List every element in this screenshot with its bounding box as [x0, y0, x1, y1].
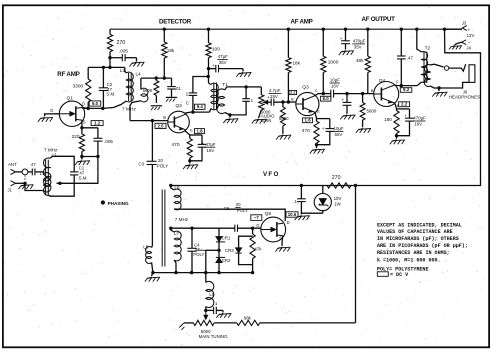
- svg-text:2.2: 2.2: [401, 102, 408, 107]
- svg-text:L7: L7: [174, 231, 180, 236]
- svg-text:GAIN: GAIN: [261, 118, 272, 123]
- svg-text:18k: 18k: [167, 48, 175, 53]
- svg-text:J3: J3: [462, 21, 467, 26]
- svg-text:9.0: 9.0: [92, 101, 99, 106]
- svg-text:10µF: 10µF: [330, 78, 340, 83]
- svg-text:VFO: VFO: [263, 171, 280, 178]
- svg-text:C5: C5: [224, 206, 230, 211]
- svg-text:E: E: [190, 127, 193, 132]
- svg-text:.1: .1: [293, 199, 297, 204]
- svg-text:10µF: 10µF: [334, 126, 344, 131]
- svg-text:7 MHz: 7 MHz: [44, 147, 58, 152]
- svg-text:DETECTOR: DETECTOR: [159, 19, 192, 26]
- svg-text:10.6: 10.6: [288, 212, 297, 217]
- svg-text:47µF: 47µF: [206, 142, 216, 147]
- svg-text:CR2: CR2: [222, 258, 231, 263]
- svg-text:S: S: [83, 119, 86, 124]
- svg-text:47µF: 47µF: [218, 54, 228, 59]
- svg-text:+: +: [404, 113, 407, 118]
- svg-text:B: B: [291, 96, 294, 101]
- svg-text:2.5: 2.5: [157, 123, 164, 128]
- svg-text:7 MHz: 7 MHz: [175, 217, 189, 222]
- svg-text:1.6: 1.6: [305, 118, 312, 123]
- svg-text:4.7µF: 4.7µF: [269, 88, 281, 93]
- svg-text:16V: 16V: [207, 148, 215, 153]
- svg-text:.01: .01: [175, 86, 182, 91]
- svg-text:POLY: POLY: [193, 252, 204, 257]
- svg-text:3300: 3300: [73, 83, 84, 89]
- svg-text:C3: C3: [138, 161, 144, 166]
- svg-text:20: 20: [236, 202, 241, 207]
- svg-text:= DC V: = DC V: [390, 272, 409, 278]
- svg-text:D: D: [287, 220, 290, 225]
- svg-text:HEADPHONES: HEADPHONES: [449, 95, 481, 100]
- svg-text:56V: 56V: [335, 132, 343, 137]
- svg-text:270: 270: [117, 40, 126, 46]
- svg-text:AF AMP: AF AMP: [291, 19, 313, 26]
- svg-text:47k: 47k: [254, 246, 262, 251]
- svg-text:16V: 16V: [331, 84, 339, 89]
- svg-text:L3: L3: [120, 68, 126, 73]
- svg-text:−7: −7: [254, 215, 260, 220]
- svg-text:L6: L6: [174, 185, 180, 190]
- svg-text:100: 100: [212, 47, 220, 53]
- svg-text:+: +: [267, 95, 270, 100]
- svg-text:470: 470: [172, 142, 180, 148]
- svg-text:18k: 18k: [293, 60, 301, 65]
- svg-text:1: 1: [186, 92, 189, 97]
- svg-text:12V: 12V: [467, 33, 475, 38]
- svg-text:CR3: CR3: [225, 248, 234, 253]
- svg-text:Q2: Q2: [176, 103, 183, 109]
- svg-text:7 MHz: 7 MHz: [122, 107, 136, 113]
- svg-text:POLY: POLY: [157, 163, 168, 168]
- svg-text:Q4: Q4: [379, 78, 386, 84]
- svg-text:220: 220: [72, 134, 80, 140]
- svg-text:48k: 48k: [356, 58, 364, 63]
- svg-text:2.2: 2.2: [290, 90, 295, 94]
- svg-text:CR1: CR1: [222, 236, 231, 241]
- svg-text:180: 180: [384, 117, 392, 122]
- svg-text:C: C: [186, 101, 189, 106]
- svg-text:+: +: [212, 64, 215, 69]
- svg-text:.005: .005: [119, 49, 128, 54]
- svg-text:35V: 35V: [354, 45, 362, 50]
- svg-text:ARE IN PICOFARADS (pF OR µµF);: ARE IN PICOFARADS (pF OR µµF);: [377, 243, 468, 249]
- svg-text:Q3: Q3: [302, 84, 309, 90]
- svg-text:Q5: Q5: [265, 211, 272, 217]
- svg-text:IN MICROFARADS (µF); OTHERS: IN MICROFARADS (µF); OTHERS: [377, 236, 459, 242]
- svg-text:1.2: 1.2: [94, 120, 101, 125]
- svg-text:1W: 1W: [334, 202, 341, 207]
- svg-text:47: 47: [31, 162, 36, 167]
- svg-text:.005: .005: [104, 139, 113, 144]
- svg-text:L8: L8: [209, 292, 214, 297]
- svg-text:J1: J1: [8, 188, 13, 193]
- svg-text:5600: 5600: [279, 116, 289, 121]
- svg-text:9.4: 9.4: [197, 104, 204, 109]
- svg-text:68k: 68k: [244, 315, 252, 320]
- svg-text:25V: 25V: [270, 94, 278, 99]
- svg-text:PHASING: PHASING: [108, 201, 129, 206]
- svg-text:16V: 16V: [414, 122, 422, 127]
- svg-text:EXCEPT AS INDICATED, DECIMAL: EXCEPT AS INDICATED, DECIMAL: [377, 222, 462, 228]
- svg-text:470µF: 470µF: [353, 39, 366, 44]
- svg-text:+: +: [340, 36, 343, 41]
- svg-text:POLY: POLY: [237, 208, 248, 213]
- svg-text:9.2: 9.2: [403, 87, 410, 92]
- svg-text:Q1: Q1: [67, 96, 74, 102]
- svg-text:+: +: [341, 97, 344, 102]
- svg-text:RF AMP: RF AMP: [57, 71, 79, 78]
- svg-text:270: 270: [332, 175, 341, 181]
- svg-text:S: S: [279, 235, 282, 240]
- svg-text:C: C: [396, 79, 399, 84]
- svg-text:E: E: [317, 109, 320, 114]
- svg-text:ANT: ANT: [8, 162, 17, 167]
- svg-text:+: +: [201, 142, 204, 148]
- svg-text:5600: 5600: [367, 109, 377, 114]
- svg-text:5600: 5600: [143, 88, 153, 93]
- svg-text:S.M.: S.M.: [79, 176, 88, 181]
- svg-text:G: G: [256, 223, 259, 228]
- svg-text:G: G: [50, 108, 53, 113]
- svg-text:T1: T1: [222, 82, 228, 87]
- svg-text:S.M.: S.M.: [106, 92, 115, 97]
- svg-text:VALUES OF CAPACITANCE ARE: VALUES OF CAPACITANCE ARE: [377, 229, 453, 235]
- svg-text:8.0: 8.0: [323, 96, 330, 101]
- svg-text:470: 470: [302, 128, 310, 134]
- svg-text:k =1000, M=1 000 000.: k =1000, M=1 000 000.: [377, 257, 441, 263]
- svg-text:+: +: [322, 126, 325, 131]
- svg-text:L4: L4: [136, 71, 142, 76]
- svg-text:B: B: [163, 115, 166, 120]
- svg-text:MAIN TUNING: MAIN TUNING: [199, 334, 229, 339]
- svg-text:C: C: [315, 88, 318, 93]
- svg-text:1000: 1000: [328, 60, 339, 66]
- svg-text:470µF: 470µF: [413, 116, 426, 121]
- svg-text:1.8: 1.8: [196, 128, 203, 133]
